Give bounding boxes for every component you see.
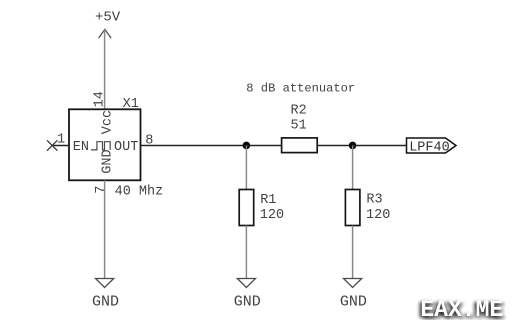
svg-text:+5V: +5V	[95, 10, 121, 26]
svg-text:GND: GND	[234, 293, 261, 310]
svg-text:Vcc: Vcc	[100, 110, 115, 134]
svg-text:GND: GND	[100, 149, 115, 173]
wire pin 8 to junction A	[141, 145, 247, 147]
junction B dot	[349, 142, 357, 150]
pin 1 stub wire	[52, 145, 69, 147]
oscillator waveform glyph	[91, 142, 110, 150]
junction A dot	[243, 142, 251, 150]
no-connect X on pin 1	[47, 140, 57, 150]
svg-text:LPF40: LPF40	[409, 140, 450, 155]
svg-text:120: 120	[366, 208, 390, 223]
svg-text:EN: EN	[73, 140, 89, 155]
oscillator U X1 body	[69, 109, 141, 180]
svg-text:R1: R1	[260, 193, 276, 208]
wire R1 to ground	[245, 226, 247, 279]
svg-text:120: 120	[260, 208, 284, 223]
svg-text:14: 14	[92, 91, 107, 107]
wire R2 to junction B	[317, 145, 352, 147]
svg-text:R3: R3	[366, 193, 382, 208]
wire junction B to LPF40	[353, 145, 407, 147]
wire junction A down to R1	[245, 146, 247, 190]
svg-text:7: 7	[94, 185, 109, 193]
hierarchical label LPF40 flag	[407, 138, 457, 153]
svg-text:EAX.ME: EAX.ME	[420, 297, 503, 320]
wire junction B down to R3	[352, 146, 354, 190]
watermark shadow blur filter	[0, 0, 1, 1]
resistor R1 body	[239, 190, 254, 226]
svg-text:8 dB attenuator: 8 dB attenuator	[246, 82, 355, 96]
svg-text:40 Mhz: 40 Mhz	[115, 185, 164, 200]
resistor R2 body	[282, 138, 318, 153]
svg-text:OUT: OUT	[114, 140, 138, 155]
svg-text:R2: R2	[291, 104, 307, 119]
ground symbol (R1)	[237, 279, 255, 288]
wire pin 7 to ground	[104, 180, 106, 278]
svg-text:GND: GND	[92, 293, 119, 310]
ground symbol (oscillator)	[96, 279, 114, 288]
wire R3 to ground	[352, 226, 354, 279]
resistor R3 body	[345, 190, 360, 226]
svg-text:GND: GND	[340, 293, 367, 310]
wire +5V to pin 14	[104, 30, 106, 110]
ground symbol (R3)	[344, 279, 362, 288]
wire junction A to R2	[246, 145, 281, 147]
power symbol +5V	[95, 10, 121, 38]
svg-text:X1: X1	[123, 97, 139, 112]
svg-text:51: 51	[291, 119, 307, 134]
